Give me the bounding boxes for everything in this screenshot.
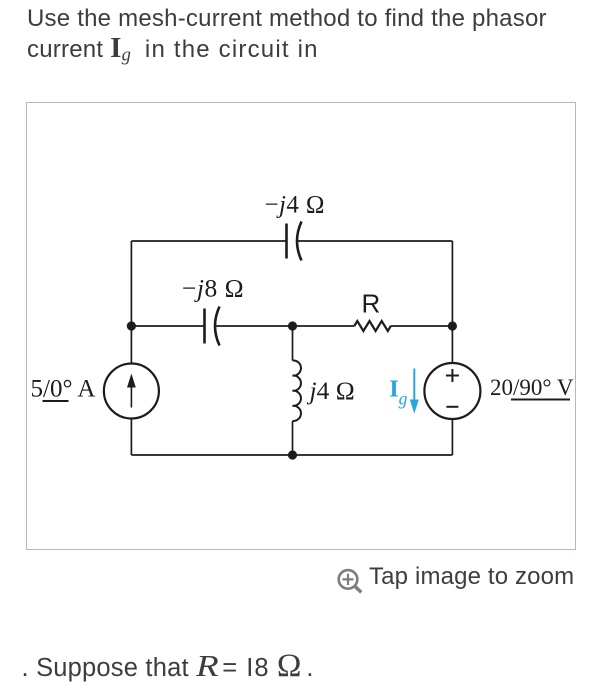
wire center branch upper (center node to inductor) <box>292 326 294 361</box>
node dot center <box>288 321 297 330</box>
inductor j4 Ω <box>293 360 301 421</box>
svg-text:−j8 Ω: −j8 Ω <box>182 274 244 303</box>
wire mid rail to resistor <box>293 325 355 327</box>
problem statement text <box>27 3 599 65</box>
wire right rail upper (mid node to top corner) <box>451 241 453 326</box>
svg-text:20/90° V: 20/90° V <box>490 375 574 400</box>
magnifier plus <box>342 574 353 585</box>
wire center branch lower (inductor to bottom node) <box>292 421 294 455</box>
wire right rail lower (bottom rail to voltage source bottom) <box>451 419 453 455</box>
circuit schematic <box>0 0 599 560</box>
underline of angle notation <box>43 400 69 402</box>
current source 5∠0° A <box>104 364 159 419</box>
svg-text:I: I <box>389 375 399 402</box>
blue arrow Ig direction <box>413 369 415 402</box>
resistor R <box>354 321 391 331</box>
magnifier handle <box>355 586 362 592</box>
node dot right <box>448 321 457 330</box>
svg-text:g: g <box>399 389 408 409</box>
svg-text:j4 Ω: j4 Ω <box>307 376 355 405</box>
node dot left <box>127 321 136 330</box>
wire top-left horizontal (top rail left of capacitor) <box>131 240 286 242</box>
wire left rail lower (current source bottom to bottom rail) <box>130 419 132 456</box>
wire bottom rail <box>131 454 452 456</box>
wire left rail mid (node to current source top) <box>130 326 132 364</box>
wire mid rail center (-j8 capacitor to center node) <box>215 325 293 327</box>
underline of angle notation <box>511 399 570 401</box>
capacitor -j4 (top) <box>287 222 302 261</box>
magnifier icon + tap to zoom <box>334 562 368 596</box>
bottom text <box>22 651 314 685</box>
plus sign <box>446 369 459 382</box>
wire top-right horizontal (top rail right of capacitor) <box>297 240 453 242</box>
svg-text:5/0° A: 5/0° A <box>31 376 96 403</box>
wire resistor to right node <box>391 325 453 327</box>
minus sign <box>446 406 458 408</box>
svg-text:R: R <box>362 289 381 319</box>
magnifier glass circle <box>339 570 358 589</box>
svg-text:−j4 Ω: −j4 Ω <box>265 192 325 219</box>
wire right rail mid (voltage source top to mid node) <box>451 326 453 363</box>
capacitor -j8 (middle) <box>205 307 220 346</box>
node dot bottom <box>288 450 297 459</box>
voltage source 20∠90° V <box>424 363 480 419</box>
current source arrow <box>130 385 132 408</box>
wire left rail upper (top corner to mid node) <box>130 241 132 326</box>
wire mid rail left (left node to -j8 capacitor) <box>131 325 204 327</box>
bordered image box <box>26 102 576 550</box>
